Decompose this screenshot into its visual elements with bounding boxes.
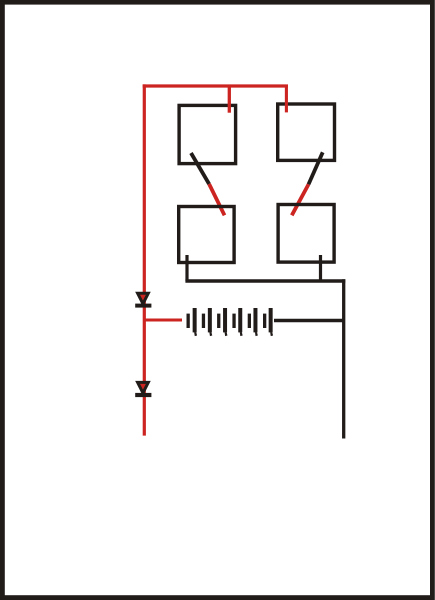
wire: red left vertical feed: [143, 84, 146, 435]
battery cell 3 short plate: [217, 314, 220, 328]
diode D1: [135, 293, 151, 307]
wire: switch link K2-K4 black half: [309, 152, 323, 184]
wire: red lead to battery +: [144, 318, 182, 321]
battery cell 4 short plate: [232, 314, 235, 328]
wire: K4 bottom stub: [319, 255, 322, 281]
wire: black return bus (horizontal): [185, 279, 345, 282]
wire: K3 bottom stub: [185, 255, 188, 281]
wire: black lead from battery -: [274, 319, 345, 323]
relay box K4 (bottom-right): [278, 205, 334, 263]
relay box K1 (top-left): [179, 105, 236, 163]
relay box K3 (bottom-left): [179, 207, 234, 263]
wire: red positive bus (top horizontal): [143, 84, 288, 87]
wire: switch link K1-K3 black half: [191, 153, 209, 184]
battery cell 4 long plate: [238, 308, 242, 332]
wire: black right vertical return: [342, 279, 345, 438]
relay box K2 (top-right): [278, 104, 335, 160]
battery cell 6 long plate: [269, 308, 273, 332]
battery cell 6 long plate foot: [270, 332, 273, 336]
battery cell 6 short plate: [263, 314, 266, 328]
battery cell 2 long plate foot: [209, 332, 212, 336]
battery cell 5 short plate: [248, 314, 251, 328]
wire: red stub into relay K2: [285, 86, 288, 112]
battery cell 5 long plate foot: [255, 332, 258, 336]
battery cell 1 long plate: [193, 308, 197, 332]
battery cell 3 long plate foot: [225, 332, 228, 336]
battery BT1 (6 cells): [187, 308, 274, 336]
wire: switch link K1-K3 red half: [209, 184, 224, 215]
battery cell 2 long plate: [208, 308, 212, 332]
wire: red stub into relay K1: [228, 86, 231, 113]
battery cell 3 long plate: [223, 308, 227, 332]
battery cell 4 long plate foot: [240, 332, 243, 336]
battery cell 2 short plate: [202, 314, 205, 328]
battery cell 1 short plate: [187, 314, 190, 328]
battery cell 5 long plate: [253, 308, 257, 332]
battery cell 1 long plate foot: [194, 332, 197, 336]
diode D2: [135, 382, 151, 397]
wire: switch link K2-K4 red half: [292, 184, 309, 215]
